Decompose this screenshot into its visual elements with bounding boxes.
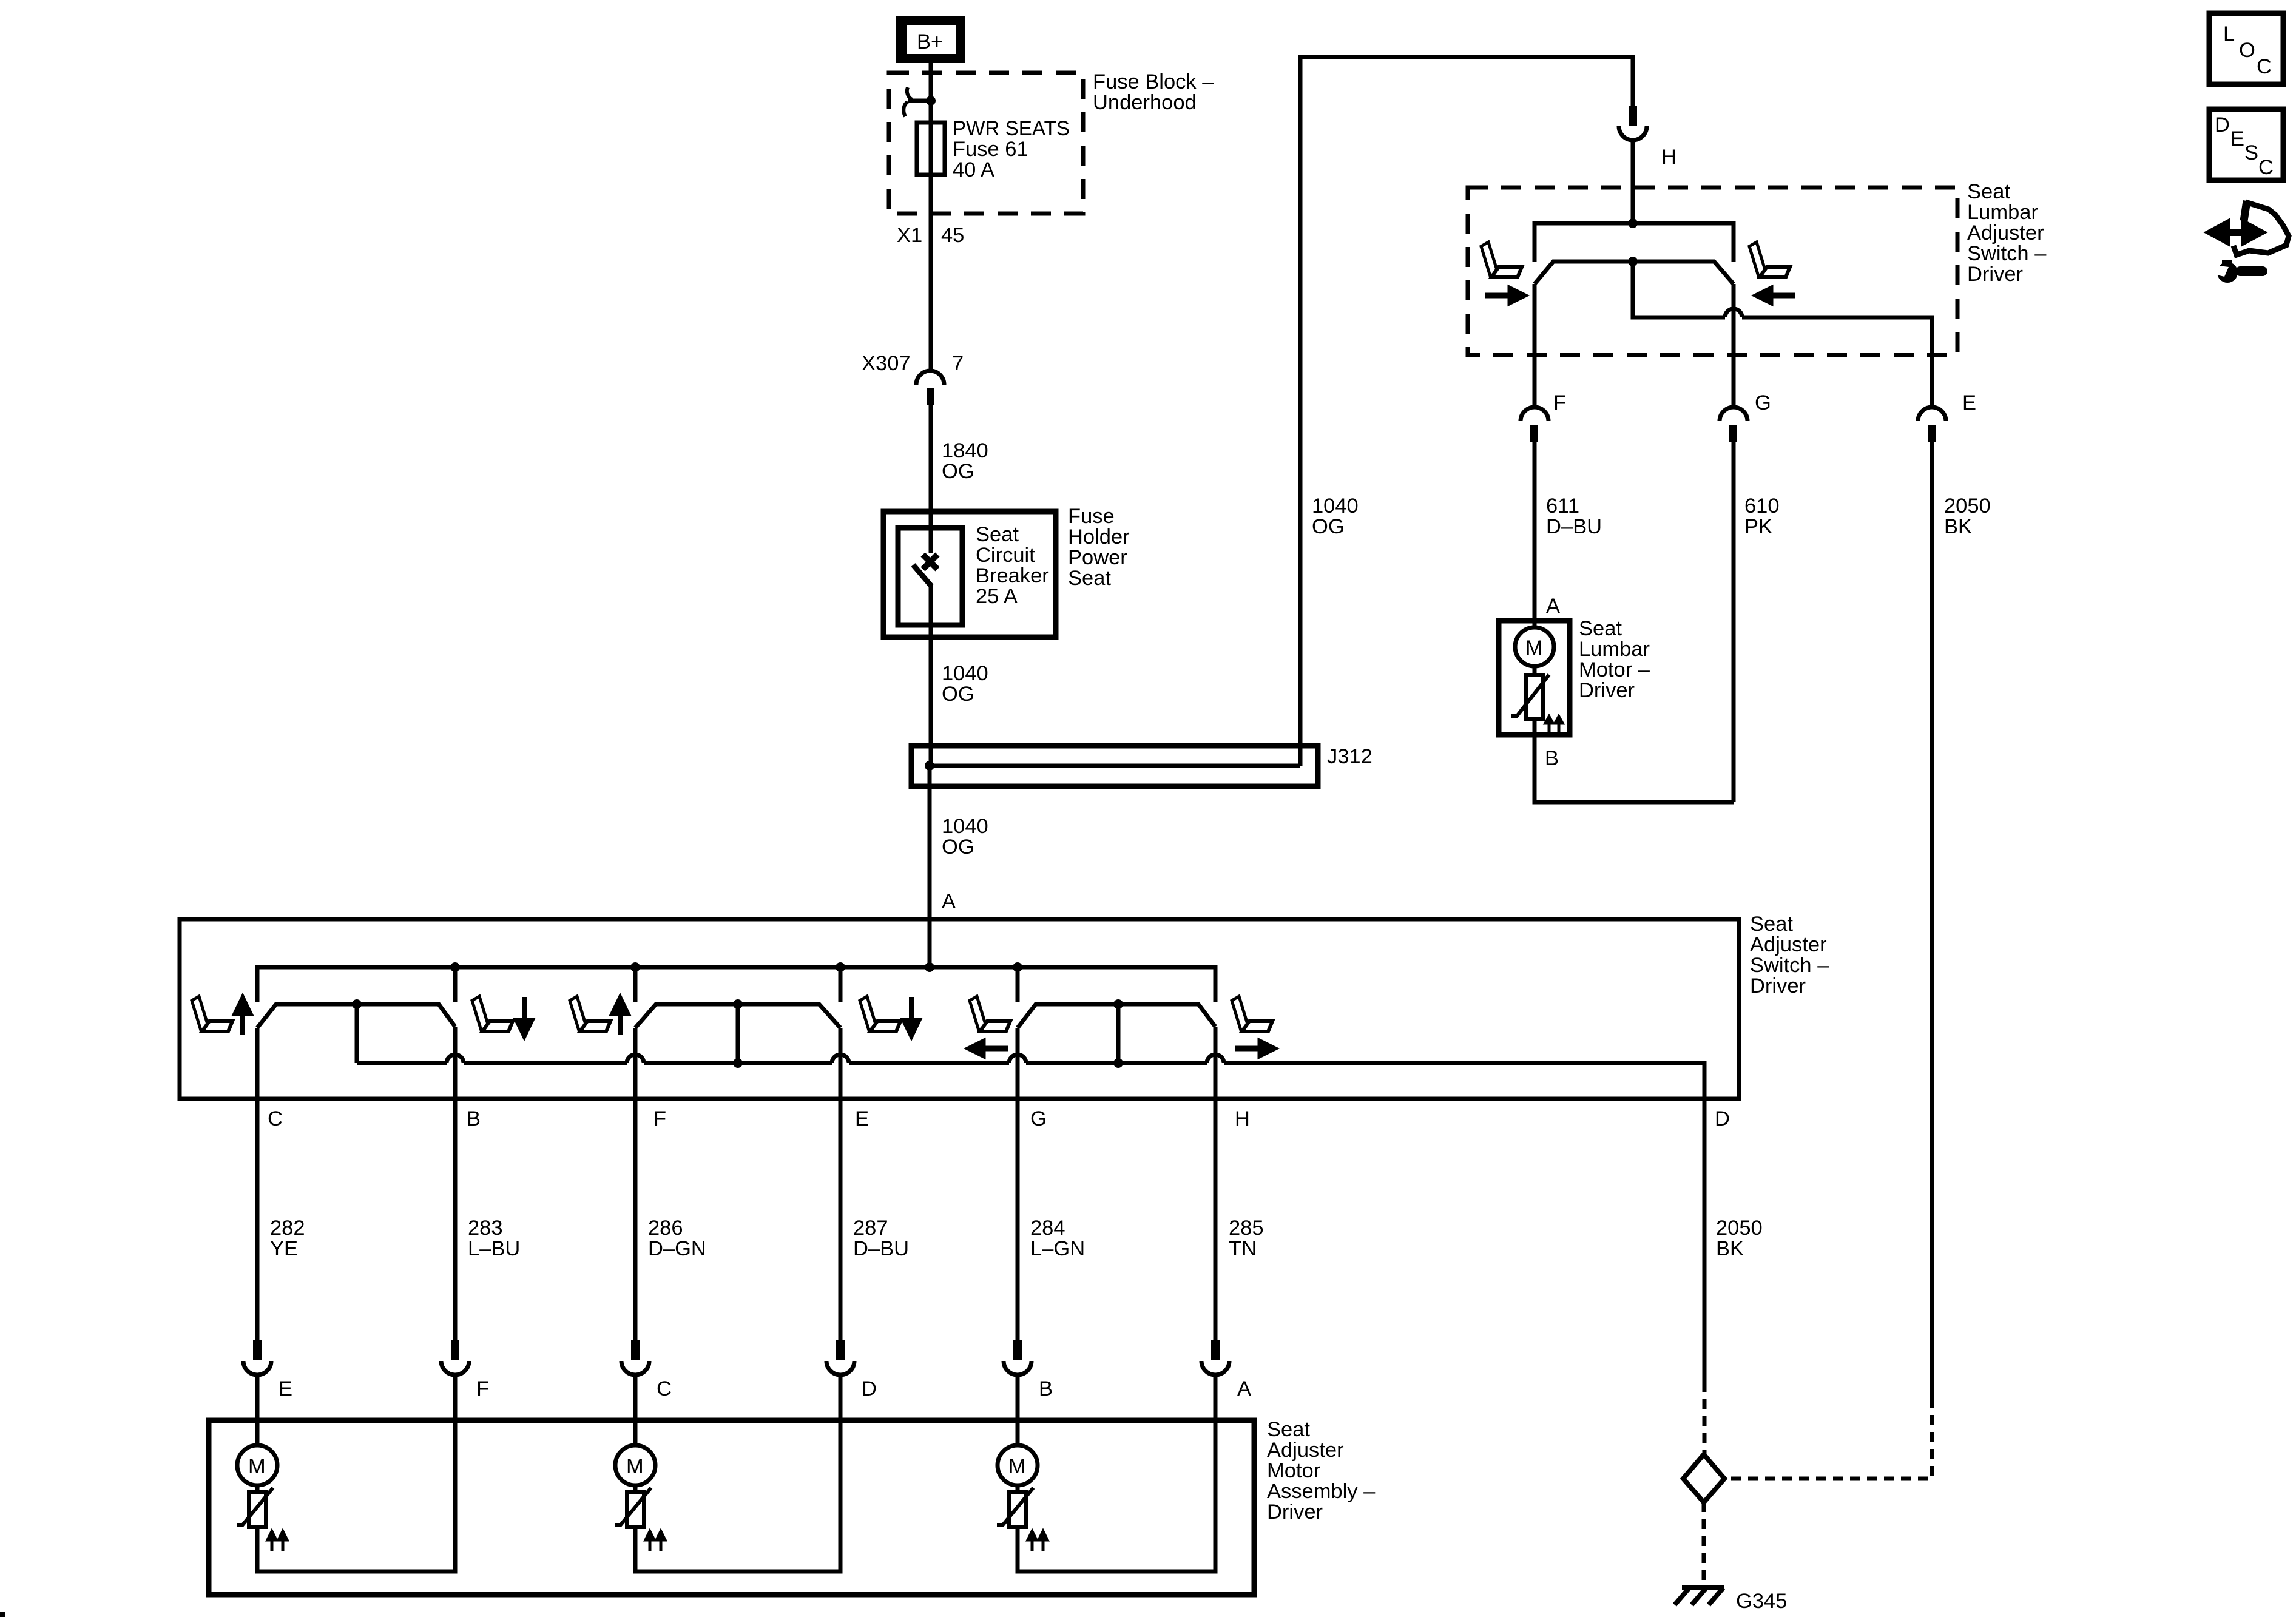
thermal protector (lumbar) [1511, 666, 1562, 732]
wiper C-B common drop [355, 1004, 359, 1063]
svg-text:Seat: Seat [1579, 617, 1622, 640]
label Seat Adjuster Motor Assembly - Driver [1267, 1418, 1376, 1524]
DESC reference box [2209, 109, 2283, 180]
svg-text:285: 285 [1229, 1217, 1264, 1240]
in-line connector motor A [1201, 1340, 1251, 1400]
svg-text:E: E [1962, 391, 1976, 414]
wire F, label 286 D-GN [635, 1028, 706, 1340]
switch feed bus [257, 967, 1215, 1002]
svg-text:E: E [855, 1107, 869, 1130]
arrow down E [904, 997, 919, 1036]
seat icon (lumbar right) [1749, 242, 1790, 277]
fuse block underhood dashed box [889, 73, 1083, 214]
in-line connector motor B [1004, 1340, 1053, 1400]
node: wiper G-H dot [1113, 999, 1123, 1009]
wire lumbar F leg [1533, 284, 1537, 407]
seat icon C (up) [192, 996, 232, 1031]
arrow up F [613, 998, 627, 1035]
svg-text:A: A [1546, 595, 1560, 618]
in-line connector X307 pin 7 [862, 352, 964, 405]
svg-text:TN: TN [1229, 1237, 1257, 1260]
wire lumbar G leg [1732, 284, 1736, 407]
svg-text:45: 45 [941, 224, 964, 247]
wire J312 to seat adjuster switch, label 1040 OG, pin A [930, 766, 988, 919]
svg-text:M: M [248, 1455, 266, 1478]
arrow right (lumbar left) [1485, 289, 1524, 302]
battery positive terminal B+ [896, 16, 965, 63]
connector X1 pin 45 labels [897, 224, 964, 247]
wire lumbar motor B return to G [1535, 719, 1734, 802]
svg-text:G: G [1030, 1107, 1047, 1130]
node: bus dot F [630, 962, 640, 972]
label Seat Lumbar Adjuster Switch - Driver [1967, 180, 2047, 286]
svg-text:OG: OG [942, 683, 974, 706]
label Seat Adjuster Switch - Driver [1750, 913, 1829, 998]
svg-text:F: F [1553, 391, 1566, 414]
seat icon E (down) [860, 996, 900, 1031]
svg-text:G345: G345 [1736, 1590, 1787, 1613]
wire H, label 285 TN [1215, 1027, 1264, 1340]
lumbar switch feed bracket [1535, 223, 1734, 262]
seat lumbar adjuster switch dashed box [1468, 187, 1957, 355]
fuse PWR SEATS Fuse 61 40 A [917, 101, 1070, 214]
svg-text:Breaker: Breaker [976, 564, 1049, 587]
svg-text:Fuse 61: Fuse 61 [953, 138, 1028, 161]
svg-text:Seat: Seat [1750, 913, 1793, 936]
in-line connector E (lumbar) [1918, 391, 1976, 442]
svg-text:D–BU: D–BU [853, 1237, 909, 1260]
thermal protector M1 [237, 1485, 287, 1551]
svg-text:BK: BK [1716, 1237, 1744, 1260]
wire C into motor 2 [633, 1374, 638, 1445]
node: common dot G-H [1113, 1058, 1123, 1068]
svg-text:L–BU: L–BU [468, 1237, 520, 1260]
svg-text:X307: X307 [862, 352, 911, 375]
stray page dot bottom left [0, 1612, 5, 1617]
seat lumbar motor box [1499, 621, 1570, 735]
splice pack J312 [911, 745, 1373, 786]
svg-text:D: D [862, 1377, 877, 1400]
svg-text:611: 611 [1546, 495, 1579, 518]
circuit breaker Seat Circuit Breaker 25 A [898, 511, 1049, 637]
svg-text:H: H [1235, 1107, 1250, 1130]
svg-text:Driver: Driver [1750, 974, 1806, 998]
svg-text:Adjuster: Adjuster [1750, 933, 1827, 956]
in-line connector motor F [441, 1340, 489, 1400]
svg-text:PWR SEATS: PWR SEATS [953, 117, 1070, 140]
svg-text:Lumbar: Lumbar [1967, 201, 2038, 224]
svg-text:1040: 1040 [942, 815, 988, 838]
svg-text:OG: OG [942, 836, 974, 859]
svg-text:OG: OG [1312, 515, 1345, 538]
svg-text:B+: B+ [917, 30, 943, 53]
svg-text:Underhood: Underhood [1093, 91, 1197, 114]
motor M3 (horizontal) [998, 1445, 1038, 1485]
label Fuse Holder Power Seat [1068, 505, 1130, 590]
svg-text:B: B [1039, 1377, 1053, 1400]
svg-text:7: 7 [952, 352, 964, 375]
switch wiper G-H (horizontal) [1018, 1004, 1215, 1028]
svg-text:Driver: Driver [1967, 263, 2023, 286]
node: lumbar bracket dot [1628, 218, 1638, 228]
svg-text:2050: 2050 [1944, 495, 1991, 518]
svg-text:J312: J312 [1327, 745, 1373, 768]
wire B into motor 3 [1016, 1374, 1020, 1445]
node: bus dot B [450, 962, 460, 972]
seat icon F (up) [570, 996, 610, 1031]
svg-text:610: 610 [1744, 495, 1780, 518]
in-line connector F (lumbar) [1521, 391, 1566, 442]
svg-text:Seat: Seat [1267, 1418, 1310, 1441]
svg-text:283: 283 [468, 1217, 503, 1240]
switch common line to D with hops [357, 1063, 1704, 1098]
svg-text:H: H [1661, 146, 1676, 169]
wire label 1040 OG (right branch) [1312, 495, 1359, 538]
wire hop at B [447, 1055, 464, 1063]
seat adjuster motor assembly box [209, 1420, 1254, 1595]
contact stub G [1016, 967, 1020, 1002]
motor M (lumbar) [1515, 621, 1554, 666]
svg-text:2050: 2050 [1716, 1217, 1763, 1240]
svg-text:Lumbar: Lumbar [1579, 638, 1650, 661]
node: common dot F-E [733, 1058, 743, 1068]
wire hop arc at G [1725, 309, 1742, 317]
svg-text:Adjuster: Adjuster [1267, 1439, 1344, 1462]
wire label 1840 OG (upper) [931, 405, 988, 511]
svg-text:Power: Power [1068, 546, 1127, 569]
node: wiper F-E dot [733, 999, 743, 1009]
LOC reference box [2209, 13, 2283, 84]
wire motor 2 return to D [635, 1374, 840, 1571]
svg-text:A: A [942, 890, 956, 913]
svg-text:OG: OG [942, 460, 974, 483]
svg-text:M: M [626, 1455, 644, 1478]
wire hop at E [832, 1055, 849, 1063]
svg-text:C: C [657, 1377, 672, 1400]
svg-text:L–GN: L–GN [1030, 1237, 1085, 1260]
contact stub E [839, 967, 843, 1002]
label Fuse Block - Underhood [1093, 70, 1214, 114]
svg-text:25 A: 25 A [976, 585, 1018, 608]
svg-text:D: D [2215, 113, 2230, 137]
seat icon (lumbar left) [1481, 242, 1522, 277]
in-line connector motor C [621, 1340, 672, 1400]
svg-text:B: B [467, 1107, 481, 1130]
svg-text:1040: 1040 [942, 662, 988, 685]
svg-text:Switch –: Switch – [1967, 242, 2047, 265]
svg-text:40 A: 40 A [953, 158, 994, 181]
wire H connector into lumbar switch [1631, 140, 1635, 223]
dashed wire diamond to ground [1702, 1502, 1706, 1584]
wiper F-E common drop [736, 1004, 740, 1063]
wire D, label 2050 BK [1704, 1098, 1763, 1382]
svg-text:E: E [279, 1377, 292, 1400]
node: bus dot E [836, 962, 845, 972]
wire fuse to X307 [929, 214, 933, 372]
svg-text:X1: X1 [897, 224, 922, 247]
svg-text:D–BU: D–BU [1546, 515, 1602, 538]
node: J312 junction dot [925, 761, 934, 771]
dashed ground wire from E (lumbar 2050 BK) [1724, 1398, 1932, 1479]
motor M1 (front vertical) [237, 1445, 277, 1485]
arrow down B [517, 997, 532, 1036]
svg-text:Fuse Block –: Fuse Block – [1093, 70, 1214, 93]
in-line connector motor D [826, 1340, 877, 1400]
svg-text:BK: BK [1944, 515, 1972, 538]
wire hop at F [627, 1055, 644, 1063]
seat icon H [1232, 996, 1272, 1031]
in-line connector H (lumbar feed) [1619, 106, 1676, 169]
node: bus dot at A feed [925, 962, 934, 972]
wire G, label 284 L-GN [1018, 1028, 1085, 1340]
contact stub B [453, 967, 458, 1002]
svg-text:D–GN: D–GN [648, 1237, 706, 1260]
svg-text:A: A [1237, 1377, 1251, 1400]
motor M2 (rear vertical) [615, 1445, 655, 1485]
in-line connector G (lumbar) [1720, 391, 1771, 442]
svg-text:C: C [2258, 156, 2274, 179]
svg-text:M: M [1525, 636, 1543, 660]
svg-text:PK: PK [1744, 515, 1772, 538]
wire label 2050 BK (lumbar) [1932, 442, 1991, 1398]
svg-text:Driver: Driver [1267, 1501, 1323, 1524]
svg-text:F: F [653, 1107, 666, 1130]
node: wiper C-B dot [352, 999, 362, 1009]
arrow left (lumbar right) [1757, 289, 1795, 302]
node: lumbar wiper dot [1628, 257, 1638, 266]
wire label 610 PK [1734, 442, 1780, 802]
svg-text:B: B [1545, 747, 1559, 770]
svg-text:282: 282 [270, 1217, 305, 1240]
svg-text:L: L [2223, 22, 2235, 46]
wire label 611 D-BU [1535, 442, 1602, 621]
bus bar tap clip symbol [908, 99, 931, 103]
wire hop at H [1207, 1055, 1224, 1063]
svg-text:1840: 1840 [942, 439, 988, 462]
svg-text:O: O [2239, 39, 2255, 62]
node: bus dot G [1013, 962, 1022, 972]
wiper G-H common drop [1116, 1004, 1121, 1063]
svg-text:Motor –: Motor – [1579, 658, 1650, 681]
svg-text:Seat: Seat [1967, 180, 2010, 203]
svg-text:E: E [2230, 127, 2244, 150]
label Seat Lumbar Motor - Driver [1579, 617, 1650, 702]
node: bus tap junction dot [926, 96, 936, 106]
svg-text:286: 286 [648, 1217, 683, 1240]
svg-text:Adjuster: Adjuster [1967, 221, 2044, 245]
switch wiper F-E (rear height) [635, 1004, 840, 1028]
wire hop at G [1009, 1055, 1026, 1063]
svg-text:C: C [2257, 55, 2272, 78]
splice diamond [1683, 1454, 1724, 1502]
wire motor 1 return to F [257, 1374, 455, 1571]
fuse holder power seat box [883, 511, 1056, 637]
wire B+ to fuse block [929, 63, 933, 101]
svg-text:YE: YE [270, 1237, 298, 1260]
svg-text:S: S [2244, 141, 2258, 164]
in-line connector motor E [243, 1340, 292, 1400]
thermal protector M2 [615, 1485, 665, 1551]
ground G345 [1675, 1588, 1787, 1613]
lumbar wiper common drop with hop over G wire [1633, 262, 1932, 407]
wire label 1040 OG (below breaker) [931, 637, 988, 766]
wire motor 3 return to A [1018, 1374, 1215, 1571]
svg-text:Fuse: Fuse [1068, 505, 1115, 528]
wire E, label 287 D-BU [840, 1028, 909, 1340]
lumbar switch wiper bar [1535, 262, 1734, 284]
svg-text:F: F [476, 1377, 489, 1400]
wire C, label 282 YE [257, 1028, 305, 1340]
svg-text:Switch –: Switch – [1750, 954, 1829, 977]
svg-text:M: M [1008, 1455, 1026, 1478]
seat icon B (down) [472, 996, 513, 1031]
svg-text:Circuit: Circuit [976, 544, 1035, 567]
svg-text:Seat: Seat [976, 523, 1019, 546]
svg-text:Holder: Holder [1068, 525, 1130, 549]
svg-text:Motor: Motor [1267, 1459, 1320, 1482]
switch wiper C-B (front height) [257, 1004, 455, 1028]
arrow up C [235, 998, 250, 1035]
svg-text:D: D [1715, 1107, 1730, 1130]
dashed ground wire from D [1703, 1382, 1707, 1454]
svg-text:Seat: Seat [1068, 567, 1111, 590]
svg-text:C: C [268, 1107, 283, 1130]
contact stub F [633, 967, 638, 1002]
svg-text:1040: 1040 [1312, 495, 1359, 518]
seat icon G [970, 996, 1010, 1031]
thermal protector M3 [997, 1485, 1047, 1551]
arrow left G [970, 1042, 1008, 1055]
svg-text:284: 284 [1030, 1217, 1065, 1240]
svg-text:Assembly –: Assembly – [1267, 1480, 1376, 1503]
wire pin A into switch [928, 919, 932, 967]
wire branch J312 up and across to lumbar switch [1300, 57, 1633, 766]
svg-text:Driver: Driver [1579, 679, 1635, 702]
pin labels C B F E G H D [268, 1107, 1730, 1130]
wire E into motor 1 [255, 1374, 260, 1445]
seat adjuster switch box [180, 919, 1739, 1099]
wire B, label 283 L-BU [455, 1027, 520, 1340]
svg-text:287: 287 [853, 1217, 888, 1240]
arrow right H [1235, 1042, 1274, 1055]
svg-text:G: G [1755, 391, 1771, 414]
service adjustable icon (double arrow, component outline, wrench) [2211, 201, 2289, 283]
